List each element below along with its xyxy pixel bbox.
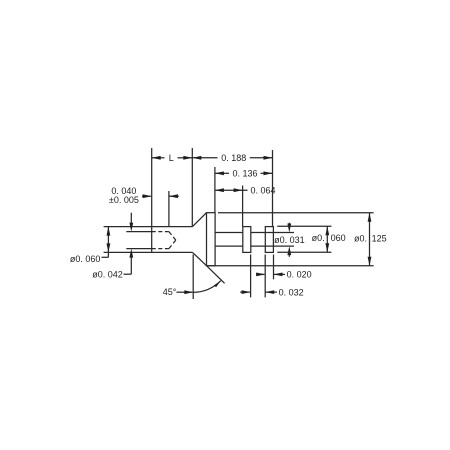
- 45 degree arc end arrow: [214, 281, 220, 287]
- extension line at hole depth end for 0.040: [168, 191, 170, 226]
- diameter 0.042 text: [92, 270, 123, 280]
- hidden drill cone top (dashed): [169, 232, 176, 241]
- head flange rectangle: [207, 213, 216, 266]
- dimension 0.032 right outside arrow with leader: [265, 290, 277, 294]
- svg-text:0. 136: 0. 136: [232, 169, 257, 179]
- hidden hole bottom line (dashed): [152, 248, 169, 250]
- dimension L line left segment with arrow: [152, 156, 165, 160]
- dimension 0.032 left outside arrow: [240, 290, 250, 294]
- diameter 0.125 text: [354, 234, 387, 244]
- 45 degree cone edge extended reference line: [207, 266, 225, 284]
- dimension 0.136 line right segment with arrow: [261, 171, 273, 175]
- diameter 0.042 bottom outside arrow with leader: [124, 249, 134, 275]
- diameter 0.060 right extension line bottom: [277, 251, 331, 253]
- dimension 0.040 left outside arrow: [142, 194, 152, 198]
- extension line down from ring2 right edge: [273, 255, 275, 280]
- hidden hole top line (dashed): [152, 231, 169, 233]
- shank bottom line segment B with right extension: [251, 245, 294, 247]
- dimension 0.188 line left segment with arrow: [192, 156, 217, 160]
- diameter 0.031 text: [274, 235, 305, 245]
- svg-text:0. 188: 0. 188: [221, 153, 246, 163]
- tube outer bottom line with left extension: [104, 251, 193, 253]
- extension line down from ring2 left edge: [264, 255, 266, 298]
- dimension 0.064 text: [250, 185, 275, 195]
- svg-text:45°: 45°: [163, 287, 177, 297]
- 45 degree text: [163, 287, 177, 297]
- svg-text:ø0.: ø0.: [312, 233, 325, 243]
- 45 degree dimension arc: [193, 281, 221, 293]
- svg-text:0. 064: 0. 064: [250, 185, 275, 195]
- diameter 0.042 extension line top: [126, 231, 151, 233]
- diameter 0.125 extension line top: [218, 212, 374, 214]
- extension line at cone start for L and 0.188: [191, 148, 193, 226]
- diameter 0.125 dimension line with arrows: [368, 213, 372, 266]
- shank top line segment B with right extension: [251, 232, 294, 234]
- 45 degree vertical reference extension line: [192, 255, 194, 300]
- diameter 0.060 left text: [70, 254, 101, 264]
- ring 2: [265, 227, 273, 253]
- 45 degree leader with arrow: [177, 290, 194, 294]
- svg-text:±0. 005: ±0. 005: [109, 195, 139, 205]
- dimension 0.020 left outside arrow: [256, 273, 265, 277]
- svg-text:ø0. 042: ø0. 042: [92, 270, 123, 280]
- diameter 0.031 top outside arrow: [287, 223, 291, 233]
- dimension 0.040 tolerance text line2: [109, 195, 139, 205]
- svg-text:0. 032: 0. 032: [279, 287, 304, 297]
- extension line down from ring1 right edge: [250, 255, 252, 298]
- diameter 0.125 extension line bottom: [207, 265, 374, 267]
- diameter 0.060 left dimension line with arrows and leader: [102, 227, 111, 258]
- dimension 0.136 line left segment with arrow: [215, 171, 229, 175]
- shank top line segment A: [215, 232, 243, 234]
- dimension L text: [169, 153, 174, 163]
- tube left end face / extension line for L: [151, 148, 153, 252]
- dimension 0.064 line with arrows: [215, 188, 248, 192]
- diameter 0.060 right text: [312, 233, 346, 243]
- diameter 0.031 bottom outside arrow: [287, 246, 291, 257]
- dimension 0.136 text: [232, 169, 257, 179]
- diameter 0.042 extension line bottom: [126, 248, 151, 250]
- dimension 0.020 right outside arrow with leader: [274, 273, 286, 277]
- svg-text:0. 020: 0. 020: [287, 270, 312, 280]
- dimension 0.188 text: [221, 153, 246, 163]
- extension line at flange right for 0.136 and 0.064: [214, 167, 216, 213]
- tube outer top line with left extension: [104, 226, 193, 228]
- dimension L line right segment with arrow: [178, 156, 193, 160]
- diameter 0.060 right extension line top: [277, 225, 331, 227]
- dimension 0.040 right outside arrow: [169, 194, 179, 198]
- svg-text:ø0. 031: ø0. 031: [274, 235, 305, 245]
- dimension 0.188 line right segment with arrow: [250, 156, 273, 160]
- svg-text:060: 060: [331, 233, 346, 243]
- ring 1: [243, 227, 251, 253]
- dimension 0.040 text line1: [111, 186, 136, 196]
- head cone bottom edge: [193, 252, 207, 265]
- hidden drill cone bottom (dashed): [169, 240, 176, 249]
- svg-text:125: 125: [372, 234, 387, 244]
- dimension 0.032 text: [279, 287, 304, 297]
- extension line at ring2 right for 0.188 and 0.136: [272, 150, 274, 226]
- svg-text:ø0. 060: ø0. 060: [70, 254, 101, 264]
- dimension 0.020 text: [287, 270, 312, 280]
- svg-text:ø0.: ø0.: [354, 234, 367, 244]
- svg-text:L: L: [169, 153, 174, 163]
- extension line at ring1 left for 0.064: [242, 186, 244, 227]
- diameter 0.042 top outside arrow: [129, 213, 133, 232]
- head cone top edge: [193, 213, 207, 227]
- diameter 0.060 right dimension line with arrows: [325, 226, 329, 252]
- shank bottom line segment A: [215, 245, 243, 247]
